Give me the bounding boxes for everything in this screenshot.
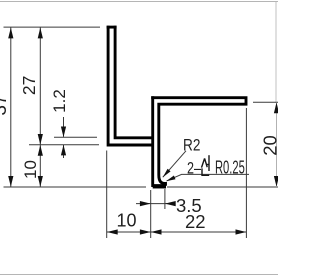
svg-text:10: 10 (117, 211, 137, 231)
svg-text:10: 10 (21, 160, 40, 179)
svg-text:2–: 2– (187, 159, 201, 178)
svg-text:37: 37 (0, 94, 11, 115)
svg-text:1.2: 1.2 (50, 89, 69, 113)
svg-text:27: 27 (19, 76, 39, 95)
svg-text:20: 20 (259, 135, 278, 156)
svg-text:R2: R2 (183, 136, 200, 155)
svg-text:3.5: 3.5 (176, 195, 202, 216)
svg-text:R0.25: R0.25 (215, 158, 245, 178)
